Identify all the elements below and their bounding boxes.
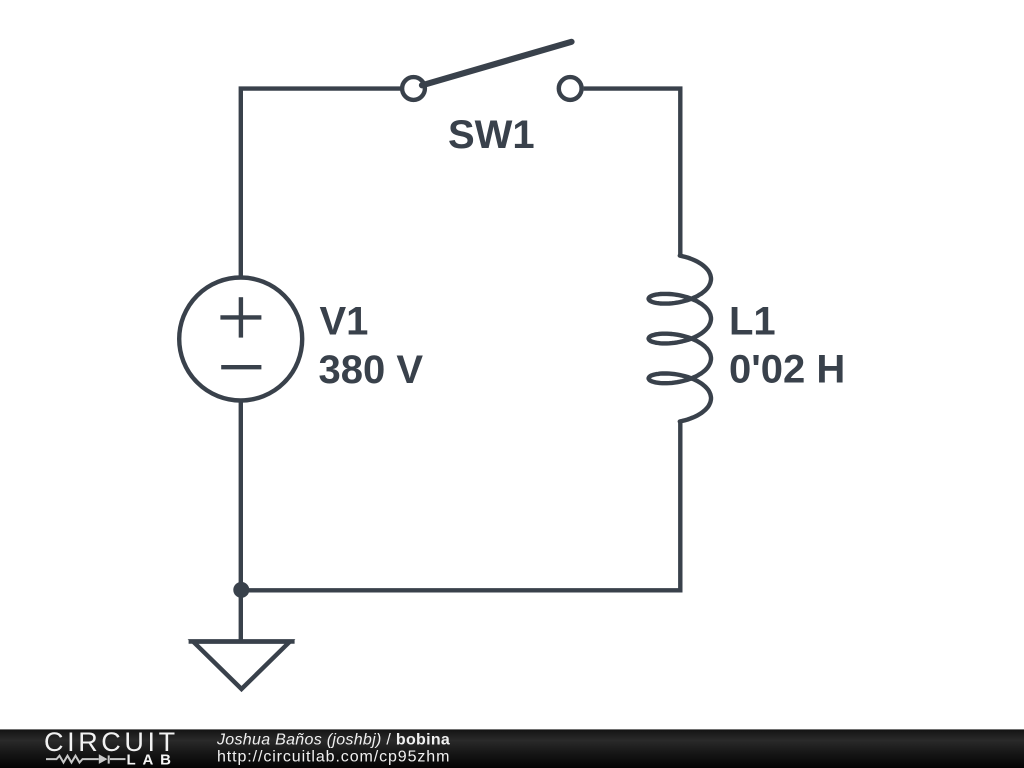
logo resistor zigzag and diode [46,755,126,763]
svg-text:LAB: LAB [127,751,178,768]
svg-text:0'02 H: 0'02 H [729,348,845,392]
wire: top-right horizontal from switch right terminal to corner, down to inductor [584,89,681,256]
switch SW1 right terminal circle [559,77,582,100]
wire: top-left horizontal from corner to switch left terminal [241,89,400,277]
svg-text:Joshua Baños (joshbj) / bobina: Joshua Baños (joshbj) / bobina [216,732,450,749]
wire: right vertical below inductor, bottom horizontal to junction [239,422,680,590]
svg-text:L1: L1 [729,300,776,344]
ground symbol [189,590,295,689]
voltage source V1 circle [179,278,302,401]
V1 plus sign [220,297,261,337]
svg-text:SW1: SW1 [448,113,535,157]
svg-text:http://circuitlab.com/cp95zhm: http://circuitlab.com/cp95zhm [217,749,450,766]
wire: left vertical below source down to junction [239,402,243,591]
svg-text:380 V: 380 V [319,348,424,392]
logo diode triangle [99,754,108,764]
switch SW1 left terminal circle [402,77,425,100]
inductor L1 coil [649,256,711,422]
switch SW1 lever [422,42,572,86]
V1 minus sign [221,365,261,369]
svg-text:V1: V1 [320,299,369,343]
junction node dot [233,582,249,598]
